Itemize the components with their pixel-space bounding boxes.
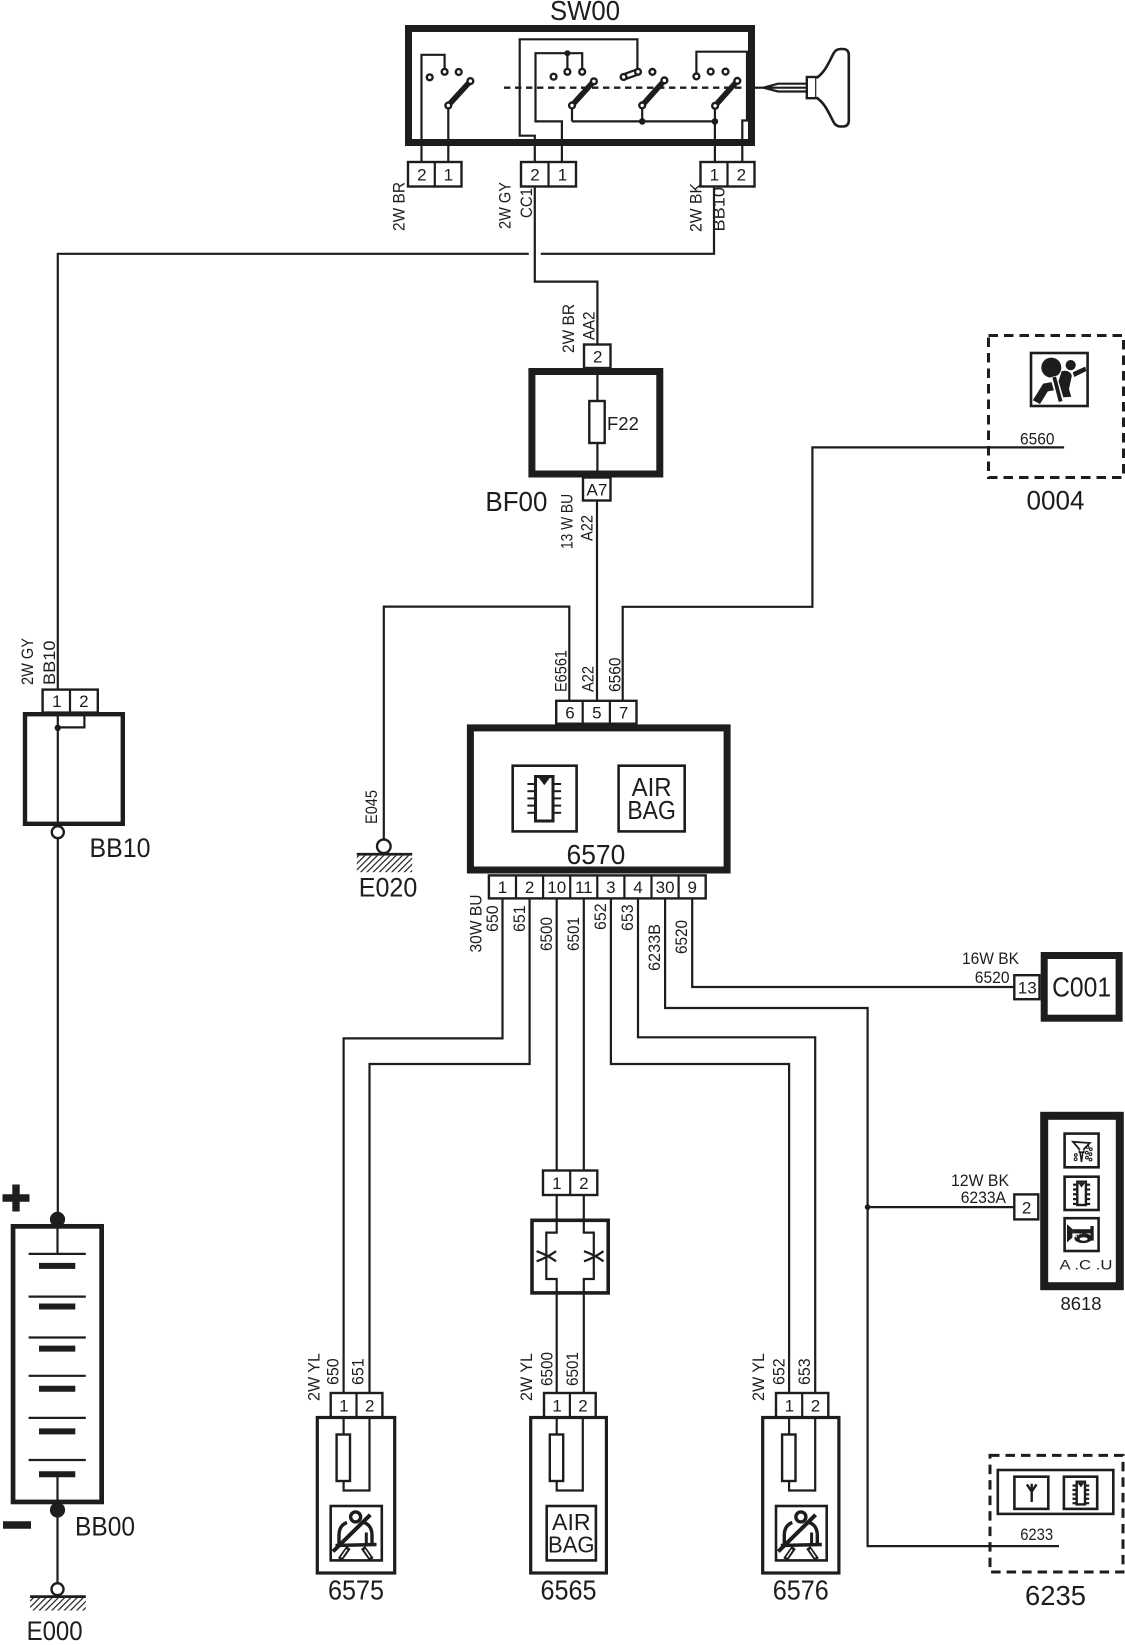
switch S3 lever — [643, 82, 663, 105]
microprocessor icon (6235) — [1073, 1482, 1090, 1505]
squib return wire 6576 — [789, 1418, 815, 1491]
ground bar E020 — [357, 853, 412, 856]
connector SW00 pins 1|2 right (BB10) — [701, 162, 755, 187]
wire BB10 to battery positive — [57, 838, 59, 1213]
ECU connector pins 6 5 7 — [556, 701, 636, 724]
connector 1|2 of 6575 — [331, 1393, 383, 1418]
airbag icon box — [1031, 353, 1088, 406]
clockspring left path — [546, 1195, 556, 1393]
connector pin 2 of BF00 — [584, 345, 611, 369]
svg-text:2: 2 — [578, 1397, 587, 1416]
svg-text:CC1: CC1 — [517, 188, 536, 218]
svg-text:1: 1 — [710, 166, 719, 185]
microprocessor icon (8618) — [1073, 1182, 1090, 1205]
switch S4 wired contact — [694, 74, 700, 80]
switch S3 contact — [650, 69, 656, 75]
svg-text:6576: 6576 — [773, 1574, 829, 1605]
switch S2 outer loop wire (pin 2 to key barrel) — [520, 39, 638, 162]
fuse box BF00 — [532, 372, 660, 475]
svg-text:1: 1 — [552, 1397, 561, 1416]
wire pin1 to 6575 pin1 — [344, 898, 503, 1393]
svg-text:9: 9 — [687, 878, 696, 897]
svg-text:2W BR: 2W BR — [390, 182, 409, 231]
svg-text:6501: 6501 — [563, 1352, 582, 1386]
minus sign — [3, 1521, 31, 1528]
svg-text:7: 7 — [619, 704, 628, 723]
switch S4 lever — [716, 82, 736, 105]
junction node on S2 contact feed — [564, 50, 570, 56]
junction connector C001 — [1044, 956, 1119, 1019]
squib 6575 — [337, 1435, 350, 1482]
svg-text:2W YL: 2W YL — [517, 1353, 536, 1401]
svg-text:652: 652 — [591, 903, 610, 930]
svg-text:650: 650 — [483, 905, 502, 932]
airbag ECU 6570 — [470, 728, 727, 870]
wire ECU pin7 to 0004 — [623, 447, 1064, 700]
connector 1|2 of 6565 — [544, 1393, 596, 1418]
svg-text:E000: E000 — [27, 1616, 83, 1645]
switch S2 contact b — [579, 69, 585, 75]
wire battery to ground E000 — [56, 1515, 58, 1583]
microprocessor icon box (8618) — [1065, 1177, 1099, 1210]
wire ECU pin6 to ground E020 — [384, 607, 570, 840]
svg-text:2: 2 — [579, 1174, 588, 1193]
svg-text:2W YL: 2W YL — [305, 1353, 324, 1401]
junction node in BB10 — [55, 725, 61, 731]
microprocessor icon — [527, 777, 561, 822]
svg-text:6235: 6235 — [1025, 1580, 1086, 1611]
svg-text:2W GY: 2W GY — [18, 638, 37, 685]
SW00 case — [409, 29, 752, 143]
svg-text:650: 650 — [324, 1358, 343, 1385]
svg-text:6501: 6501 — [564, 917, 583, 951]
battery internal top wire — [56, 1226, 58, 1254]
wire pin11 to clockspring pin2 — [583, 898, 585, 1170]
svg-text:4: 4 — [633, 878, 642, 897]
ground terminal circle E000 — [52, 1583, 64, 1595]
svg-text:1: 1 — [558, 166, 567, 185]
squib 6565 — [550, 1435, 563, 1482]
clockspring right path — [584, 1195, 594, 1393]
svg-text:1: 1 — [552, 1174, 561, 1193]
svg-text:6500: 6500 — [537, 917, 556, 951]
BB10 internal wire pin1 down — [57, 713, 59, 826]
receiver unit box — [998, 1470, 1114, 1514]
switch S2 lever — [573, 82, 593, 104]
svg-text:6500: 6500 — [538, 1352, 557, 1386]
seat belt pretensioner 6576 — [763, 1418, 839, 1574]
svg-text:6520: 6520 — [672, 920, 691, 954]
belt icon 6576 — [778, 1512, 822, 1560]
squib 6576 — [782, 1435, 795, 1482]
wire pin4 to 6576 pin2 — [638, 898, 815, 1393]
aerial icon box — [1014, 1477, 1048, 1509]
AIR BAG icon box — [619, 766, 685, 832]
svg-text:1: 1 — [785, 1397, 794, 1416]
svg-text:E020: E020 — [359, 872, 418, 902]
switch S3 lever wire to rail — [641, 108, 643, 121]
svg-text:BB10: BB10 — [90, 833, 151, 863]
battery positive node — [50, 1212, 65, 1227]
svg-text:A7: A7 — [587, 481, 608, 500]
ground bar E000 — [30, 1595, 86, 1598]
junction node S3 on rail — [639, 118, 646, 125]
battery negative node — [50, 1502, 65, 1517]
aerial unit 6235 dashed box — [990, 1455, 1123, 1572]
plus sign — [3, 1185, 30, 1212]
svg-text:A .C .U: A .C .U — [1060, 1257, 1113, 1273]
switch S2 lever wire to common rail — [571, 108, 573, 121]
svg-text:6: 6 — [565, 704, 574, 723]
svg-text:2: 2 — [593, 348, 602, 367]
svg-text:2: 2 — [530, 166, 539, 185]
BB10 output terminal — [52, 826, 64, 838]
siren (funnel) icon — [1073, 1142, 1092, 1162]
horn icon box — [1065, 1218, 1099, 1251]
svg-text:6233B: 6233B — [645, 924, 664, 971]
svg-text:A22: A22 — [579, 666, 598, 692]
svg-text:E045: E045 — [362, 790, 381, 824]
svg-text:13: 13 — [1018, 979, 1037, 998]
svg-text:2W GY: 2W GY — [496, 182, 515, 229]
switch S1 free contact — [427, 74, 433, 80]
ignition key symbol — [748, 49, 849, 127]
squib wire 6576 — [788, 1418, 790, 1435]
svg-text:AA2: AA2 — [580, 312, 599, 341]
airbag warning lamp unit 0004 dashed box — [989, 336, 1124, 478]
svg-text:5: 5 — [592, 704, 601, 723]
wire pin9 to C001 pin13 — [692, 898, 1014, 987]
connector pin A7 — [583, 478, 611, 501]
squib wire 6565 — [556, 1418, 558, 1435]
svg-text:2: 2 — [417, 166, 426, 185]
fuse F22 — [589, 401, 604, 443]
microprocessor icon box (6235) — [1064, 1477, 1097, 1509]
ECU bottom connector pins 1 2 10 11 3 4 30 9 — [489, 875, 706, 898]
mechanical link dashed line — [504, 86, 744, 88]
wire CC1 pin2 to fuse box BF00 — [535, 187, 598, 345]
driver airbag module 6565 — [531, 1418, 607, 1574]
svg-text:BAG: BAG — [627, 795, 676, 825]
siren icon box — [1065, 1134, 1099, 1168]
alarm control unit 8618 — [1044, 1116, 1120, 1286]
svg-text:651: 651 — [510, 905, 529, 932]
AIR BAG box 6565 — [547, 1506, 596, 1560]
svg-text:BF00: BF00 — [485, 486, 547, 517]
svg-text:8618: 8618 — [1061, 1293, 1102, 1314]
airbag icon — [1033, 358, 1087, 404]
svg-text:1: 1 — [339, 1397, 348, 1416]
svg-text:653: 653 — [795, 1358, 814, 1385]
svg-text:2: 2 — [811, 1397, 820, 1416]
ground hatch E020 — [357, 856, 412, 873]
svg-text:BB10: BB10 — [710, 187, 729, 232]
switch S2 free contact — [551, 74, 557, 80]
svg-text:6560: 6560 — [606, 658, 625, 693]
svg-text:653: 653 — [618, 904, 637, 931]
svg-text:2: 2 — [79, 692, 88, 711]
svg-text:11: 11 — [575, 878, 593, 897]
wire pin2 to 6575 pin2 — [370, 898, 530, 1393]
wire A7 to ECU pin 5 — [596, 501, 598, 701]
battery cells — [29, 1254, 86, 1474]
rotary coupler (clockspring) 6564 — [532, 1220, 608, 1293]
horn icon — [1067, 1224, 1094, 1243]
connector pin 13 of C001 — [1014, 975, 1039, 999]
svg-text:1: 1 — [444, 166, 453, 185]
ground terminal circle E020 — [377, 840, 391, 854]
svg-text:0004: 0004 — [1027, 486, 1085, 516]
wire pin10 to clockspring pin1 — [556, 898, 558, 1170]
switch S1 free contact right — [456, 69, 462, 75]
switch S4 free contact b — [723, 69, 729, 75]
svg-text:2: 2 — [365, 1397, 374, 1416]
wire pin3 to 6576 pin1 — [611, 898, 789, 1393]
wire pin30 to 8618 and 6235 — [665, 898, 1059, 1546]
switch S4 feed loop wire (contact to pin 2) — [696, 52, 747, 162]
svg-text:13 W BU: 13 W BU — [558, 494, 577, 549]
belt icon 6575 — [333, 1512, 377, 1560]
svg-text:C001: C001 — [1052, 972, 1111, 1003]
svg-text:16W BK: 16W BK — [962, 949, 1020, 968]
sliding contact left — [537, 1251, 557, 1261]
wire junction to S2 contact — [566, 53, 568, 69]
svg-text:BB10: BB10 — [40, 641, 59, 686]
wire fuse to pin A7 — [596, 443, 598, 478]
connector 1|2 of 6576 — [776, 1393, 828, 1418]
microprocessor icon box — [513, 766, 577, 832]
common rail of switch levers — [572, 120, 715, 122]
squib wire 6575 — [343, 1418, 345, 1435]
svg-text:2: 2 — [1022, 1199, 1031, 1218]
wire into fuse F22 — [596, 368, 598, 401]
battery BB00 case — [13, 1226, 102, 1502]
switch S2 contact a — [565, 69, 571, 75]
belt icon box 6576 — [776, 1506, 827, 1560]
switch S4 free contact a — [708, 69, 714, 75]
svg-text:6565: 6565 — [541, 1574, 597, 1605]
svg-text:1: 1 — [52, 692, 61, 711]
ground hatch E000 — [30, 1598, 86, 1611]
battery internal bottom wire — [56, 1474, 58, 1503]
svg-text:2W YL: 2W YL — [749, 1353, 768, 1401]
aerial icon — [1027, 1484, 1037, 1502]
seat belt pretensioner 6575 — [317, 1418, 394, 1574]
belt icon box 6575 — [331, 1506, 382, 1560]
svg-text:2: 2 — [525, 878, 534, 897]
wire continues left to BB10 drop — [58, 254, 529, 690]
svg-text:6560: 6560 — [1020, 429, 1055, 448]
switch S4 lever wire to pin 1 — [714, 109, 716, 162]
svg-text:2W BR: 2W BR — [559, 304, 578, 353]
squib return wire 6565 — [557, 1418, 583, 1491]
wire SW00 pin1 to BB10 (with crossover gap) — [541, 187, 714, 254]
svg-text:F22: F22 — [607, 413, 639, 434]
squib return wire 6575 — [344, 1418, 370, 1491]
connector SW00 pins 2|1 centre (CC1) — [521, 162, 576, 187]
switch S2 inner loop wire (pin 1 to contacts) — [536, 53, 583, 162]
svg-text:651: 651 — [349, 1358, 368, 1385]
connector pin 2 of 8618 — [1014, 1194, 1038, 1219]
switch S1 wired contact — [442, 69, 448, 75]
svg-text:SW00: SW00 — [550, 0, 620, 26]
svg-text:E6561: E6561 — [552, 650, 571, 692]
switch S1 feed wire to pin 2 — [422, 55, 445, 162]
svg-text:6233A: 6233A — [961, 1188, 1007, 1207]
battery junction box BB10 — [25, 714, 123, 824]
svg-text:BB00: BB00 — [75, 1511, 135, 1541]
switch S1 lever wire to pin 1 — [447, 109, 449, 163]
svg-text:30: 30 — [656, 878, 675, 897]
svg-text:6233: 6233 — [1020, 1525, 1053, 1544]
svg-text:BAG: BAG — [548, 1532, 595, 1558]
svg-text:6520: 6520 — [975, 968, 1010, 987]
junction node to 8618 — [865, 1204, 871, 1210]
junction node S4 on rail — [712, 118, 719, 125]
svg-text:2: 2 — [737, 166, 746, 185]
switch S1 lever — [449, 82, 469, 104]
svg-text:A22: A22 — [578, 515, 597, 541]
svg-text:1: 1 — [498, 878, 507, 897]
svg-text:6570: 6570 — [567, 839, 626, 870]
svg-text:10: 10 — [547, 878, 566, 897]
svg-text:3: 3 — [606, 878, 615, 897]
BB10 internal branch pin2 — [58, 714, 85, 727]
clockspring connector 1|2 — [543, 1171, 597, 1196]
battery junction box BB10 connector 1|2 — [43, 690, 98, 713]
wire junction to 8618 pin2 — [868, 1206, 1015, 1208]
sliding contact right — [584, 1251, 604, 1261]
svg-text:6575: 6575 — [328, 1574, 384, 1605]
connector SW00 pins 2|1 left — [408, 162, 462, 187]
svg-text:2W BK: 2W BK — [687, 182, 706, 232]
key-contact barrel symbol — [621, 69, 641, 80]
svg-text:652: 652 — [770, 1358, 789, 1385]
